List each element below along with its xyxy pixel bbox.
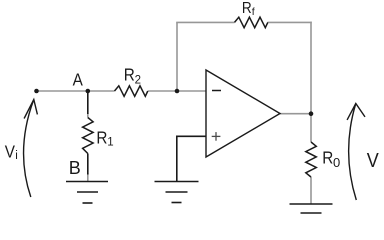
svg-text:R: R — [124, 64, 135, 84]
svg-text:R: R — [322, 147, 333, 167]
svg-text:V: V — [367, 150, 379, 172]
svg-text:V: V — [5, 141, 16, 161]
svg-text:B: B — [69, 158, 81, 178]
svg-text:R: R — [96, 127, 107, 147]
svg-text:0: 0 — [333, 155, 340, 170]
svg-text:i: i — [15, 150, 18, 162]
svg-text:A: A — [73, 69, 84, 89]
svg-text:2: 2 — [135, 74, 141, 86]
svg-text:f: f — [252, 6, 255, 18]
svg-text:R: R — [242, 0, 252, 17]
svg-text:1: 1 — [107, 136, 113, 148]
